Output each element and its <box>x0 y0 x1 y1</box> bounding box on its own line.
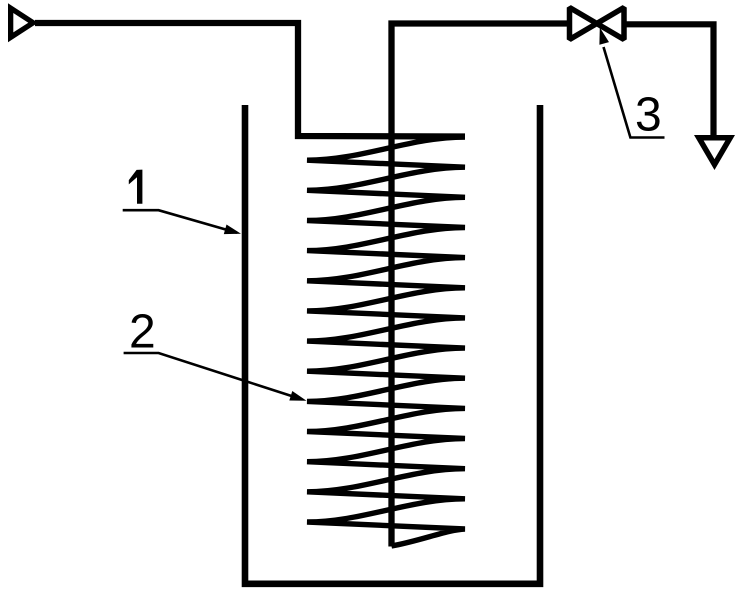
label 1 <box>123 170 241 235</box>
wire outlet riser pipe <box>392 24 570 547</box>
label 3 <box>599 28 664 142</box>
coil C2 <box>307 137 465 546</box>
wire inlet pipe <box>35 23 465 137</box>
outlet arrow <box>694 135 735 170</box>
svg-text:2: 2 <box>129 306 156 359</box>
vessel tank 1 <box>245 105 540 584</box>
valve V3 bowtie <box>570 8 625 40</box>
label 2 <box>124 306 307 401</box>
inlet arrow <box>8 3 38 42</box>
wire valve outlet pipe <box>624 24 714 140</box>
svg-text:3: 3 <box>635 89 662 142</box>
